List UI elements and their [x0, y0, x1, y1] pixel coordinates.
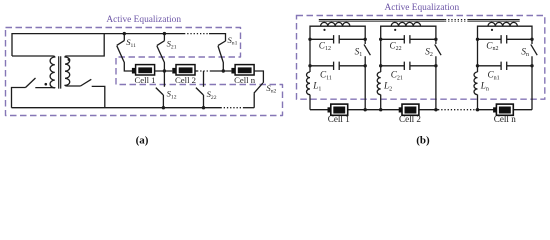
wire: bottom bus dotted continuation — [221, 107, 244, 109]
wire: secondary top to top bus — [67, 34, 105, 56]
battery Cell 2 — [172, 65, 195, 75]
wire: module1 top — [310, 26, 365, 39]
node dots on bus (b) — [364, 108, 367, 111]
capacitor C11 — [310, 62, 365, 70]
wire: lead to cell n — [211, 70, 231, 72]
polarity dot secondary (top-right) — [68, 58, 71, 61]
switch SW-left (primary bottom switch) blade — [26, 78, 36, 88]
switch SW-right (secondary bottom switch) blade — [81, 79, 92, 86]
polarity dot module1 — [323, 29, 325, 31]
wire: top bus right section to Sn1 — [209, 34, 226, 42]
shared core line dotted middle — [445, 20, 468, 22]
wire: bottom cell bus (b) — [310, 109, 438, 111]
wire: module n left rail upper — [477, 39, 479, 72]
capacitor C22 — [381, 35, 436, 43]
svg-text:Cell n: Cell n — [234, 75, 256, 85]
battery Cell 1 (b) — [328, 104, 348, 115]
wire: module2 left rail upper — [380, 39, 382, 72]
inductor L2 — [377, 72, 381, 95]
polarity dot module2 — [394, 29, 396, 31]
switch S11 — [117, 34, 132, 71]
node dot: node n left — [222, 69, 225, 72]
polarity dot primary (bottom-left) — [45, 83, 48, 86]
node dots module1 — [308, 38, 311, 41]
capacitor Cn2 — [478, 35, 533, 43]
dashed boundary box (b) Active Equalization region — [297, 16, 545, 100]
svg-text:Cell 1: Cell 1 — [328, 114, 350, 124]
wire: dotted lead between cell2 and cell n — [197, 70, 211, 72]
battery Cell 1 — [132, 65, 155, 75]
svg-text:Cell n: Cell n — [494, 114, 516, 124]
inductor winding top (module n) — [488, 22, 517, 26]
wire: cell2 right lead — [195, 70, 197, 72]
svg-text:Active Equalization: Active Equalization — [384, 3, 459, 13]
wire: bottom bus right end — [244, 107, 255, 109]
wire: module n top — [478, 26, 533, 39]
svg-text:Cell 1: Cell 1 — [135, 75, 156, 85]
wire: bottom bus dotted continuation (b) — [438, 109, 476, 111]
inductor Ln — [474, 72, 477, 95]
capacitor C21 — [381, 62, 436, 70]
transformer T1 right (secondary) winding — [65, 56, 81, 86]
wire: top bus dotted continuation — [184, 33, 209, 35]
svg-text:(b): (b) — [416, 135, 430, 147]
node dot: S11 tap — [123, 32, 126, 35]
node dot: S12 bottom — [162, 106, 165, 109]
switch S22 — [196, 71, 204, 108]
capacitor C12 — [310, 35, 365, 43]
switch S21 — [157, 34, 165, 71]
capacitor Cn1 — [478, 62, 533, 70]
transformer T1 left winding terminal wire — [12, 55, 53, 57]
switch Sn2 — [254, 71, 264, 108]
wire: module n left rail lower — [477, 95, 479, 110]
node dot: S21 tap — [163, 32, 166, 35]
inductor winding top (module2) — [391, 22, 420, 26]
node dot: S22 bottom — [202, 106, 205, 109]
wire: bottom bus (a) — [12, 107, 221, 109]
wire: bottom bus right (b) — [476, 109, 533, 111]
switch Sn — [531, 39, 537, 109]
transformer T1 left (primary) winding — [35, 56, 55, 88]
svg-text:Cell 2: Cell 2 — [175, 75, 196, 85]
dashed boundary box (a) Active Equalization region — [6, 28, 283, 116]
inductor winding top (module1) — [321, 22, 350, 26]
transformer core lines — [59, 56, 61, 88]
wire: module1 left rail upper — [309, 39, 311, 72]
node dots module n — [476, 38, 479, 41]
wire: module1 left rail lower — [309, 95, 311, 110]
node dots module2 — [379, 38, 382, 41]
shared core line (double) — [319, 20, 520, 22]
switch S1 — [364, 39, 370, 109]
switch Sn1 — [218, 41, 226, 71]
wire: secondary bottom to bottom bus — [92, 86, 105, 107]
svg-text:Active Equalization: Active Equalization — [106, 15, 181, 25]
inductor L1 — [307, 72, 310, 95]
wire: primary bottom to left corner — [12, 88, 26, 108]
wire: module2 left rail lower — [380, 95, 382, 110]
battery Cell n (b) — [493, 104, 513, 115]
polarity dot module n — [491, 29, 493, 31]
svg-text:Cell 2: Cell 2 — [399, 114, 421, 124]
battery Cell 2 (b) — [399, 104, 419, 115]
svg-text:(a): (a) — [136, 135, 149, 147]
wire: top bus (a) — [12, 34, 184, 56]
wire: module2 top — [381, 26, 436, 39]
switch S12 — [156, 71, 165, 108]
battery Cell n — [231, 65, 254, 75]
node dot: node2 (between Cell1/Cell2) — [163, 69, 166, 72]
wire: cell1 right lead — [155, 70, 173, 72]
switch S2 — [435, 39, 441, 109]
